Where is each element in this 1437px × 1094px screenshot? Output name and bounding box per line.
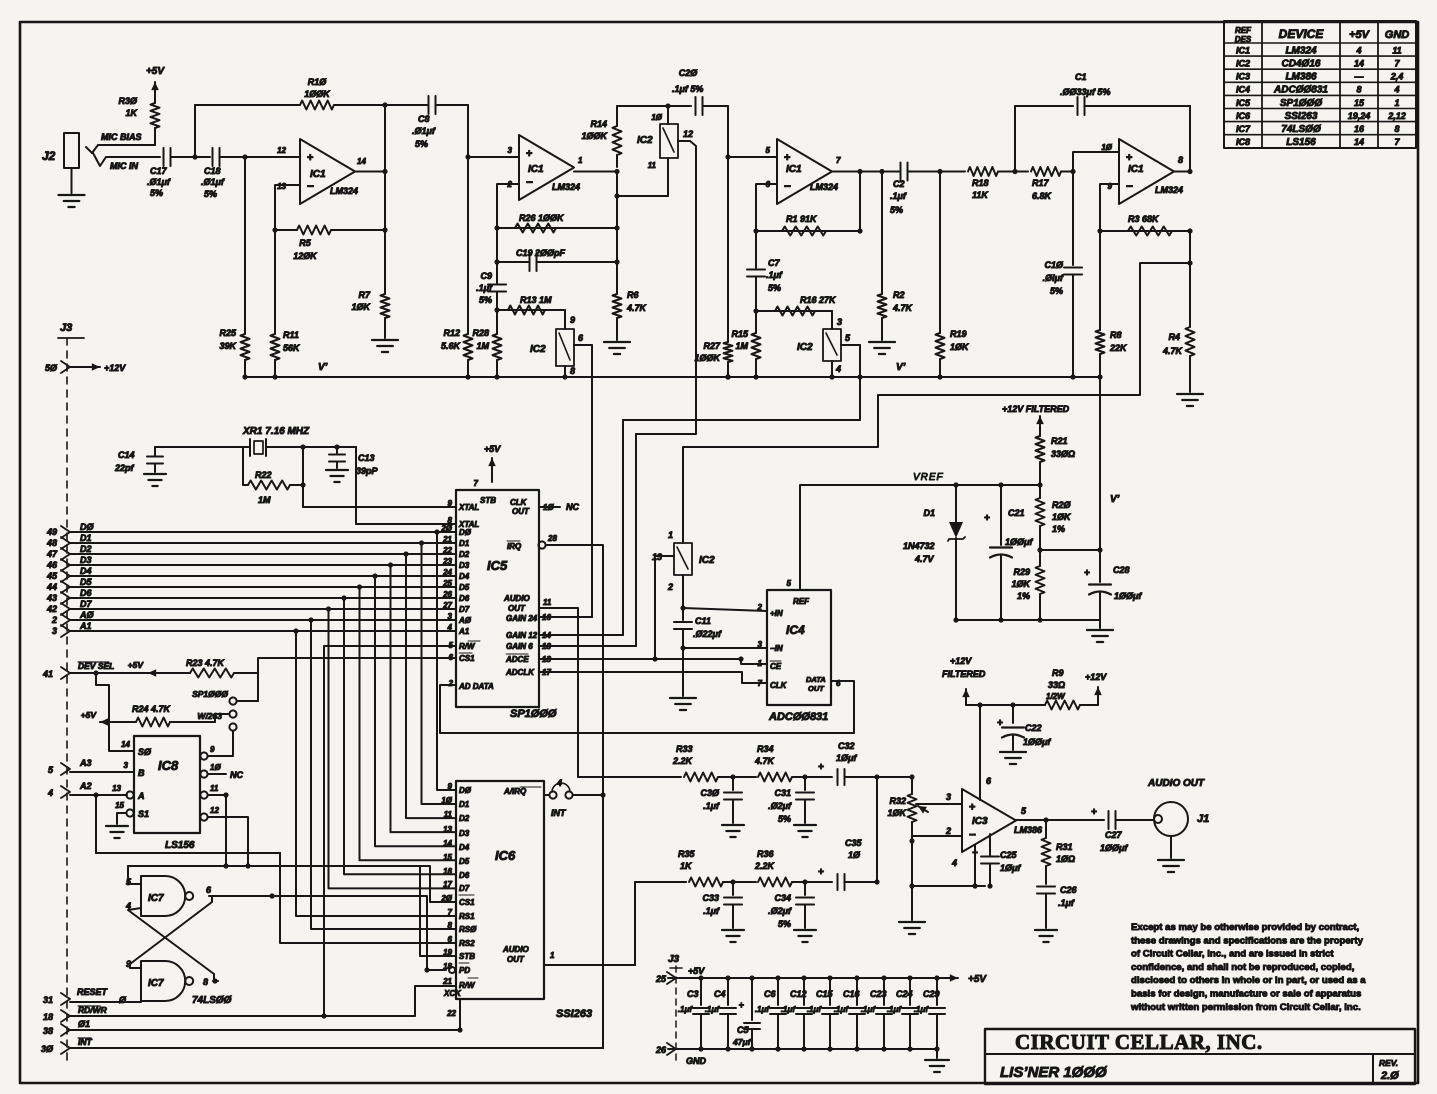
wire to op4 +in <box>1073 152 1119 172</box>
svg-text:R5: R5 <box>299 238 311 248</box>
svg-text:12: 12 <box>277 146 286 155</box>
wire MIC IN <box>93 153 160 171</box>
svg-text:XCK: XCK <box>443 989 462 998</box>
wire IC7b out <box>212 978 218 983</box>
bus wire D1 (pin 48) <box>46 533 456 549</box>
wire <box>879 169 884 174</box>
svg-text:.1μf: .1μf <box>703 801 720 811</box>
resistor R31 10ohm <box>1042 820 1076 875</box>
resistor R30 1K <box>118 96 159 145</box>
svg-text:C12: C12 <box>790 989 807 999</box>
svg-text:D7: D7 <box>459 605 470 614</box>
ground (R7) <box>372 330 398 352</box>
svg-text:1ØØμf: 1ØØμf <box>1023 737 1051 747</box>
ground (C33) <box>722 930 744 942</box>
svg-text:.1μf: .1μf <box>834 1005 849 1014</box>
svg-text:3: 3 <box>946 792 951 802</box>
svg-text:5: 5 <box>787 579 792 588</box>
svg-text:7: 7 <box>474 479 479 488</box>
svg-text:D6: D6 <box>459 594 470 603</box>
svg-text:.Ø1μf: .Ø1μf <box>201 177 225 187</box>
capacitor C29 .1uf <box>914 978 945 1049</box>
svg-text:C5: C5 <box>737 1025 749 1035</box>
svg-text:DØ: DØ <box>459 786 472 795</box>
svg-text:GAIN 24: GAIN 24 <box>506 614 538 623</box>
svg-text:R23 4.7K: R23 4.7K <box>186 658 226 668</box>
svg-text:11: 11 <box>444 810 453 819</box>
V-prime rail <box>242 362 1100 380</box>
wire DØ drop to IC6 <box>434 529 456 790</box>
wire to CS1 IC6 <box>128 866 456 902</box>
svg-text:23: 23 <box>442 557 452 566</box>
svg-text:11: 11 <box>543 598 552 607</box>
svg-text:16: 16 <box>443 867 452 876</box>
svg-text:9: 9 <box>448 782 453 791</box>
wire MIC BIAS <box>86 132 155 153</box>
resistor R9 33 1/2W <box>1045 668 1098 710</box>
wire op2 output <box>574 169 620 174</box>
capacitor C17 .01uf <box>147 148 171 198</box>
wire op4 output <box>1174 106 1193 174</box>
svg-text:56K: 56K <box>283 343 301 353</box>
svg-text:14: 14 <box>443 839 452 848</box>
svg-text:IC3: IC3 <box>972 816 988 827</box>
resistor R20 10K 1% <box>1036 482 1073 552</box>
analog switch IC2 (pins 3/5/4) <box>797 311 860 380</box>
svg-text:these drawings and specificati: these drawings and specifications are th… <box>1131 935 1364 946</box>
svg-text:REV.: REV. <box>1379 1058 1398 1068</box>
ground (C14) <box>144 474 166 486</box>
svg-text:D6: D6 <box>80 588 92 598</box>
svg-text:2,12: 2,12 <box>1387 111 1406 121</box>
svg-text:.Ø1μf: .Ø1μf <box>412 126 436 136</box>
svg-text:11: 11 <box>648 161 657 170</box>
wire D6 drop to IC6 <box>341 595 456 874</box>
svg-text:D3: D3 <box>459 829 470 838</box>
svg-text:C22: C22 <box>1025 723 1042 733</box>
wire IRQ to INT net <box>546 545 603 795</box>
wire A3 <box>48 758 134 775</box>
wire RW net <box>321 646 456 1019</box>
svg-text:ADCLK: ADCLK <box>505 668 535 677</box>
svg-text:R32: R32 <box>889 796 906 806</box>
svg-text:25: 25 <box>655 974 667 984</box>
svg-text:22pf: 22pf <box>114 463 135 473</box>
svg-text:C31: C31 <box>774 788 791 798</box>
svg-text:13: 13 <box>277 182 286 191</box>
capacitor C35 10 <box>805 838 880 890</box>
svg-text:12: 12 <box>210 806 219 815</box>
svg-text:42: 42 <box>46 604 57 614</box>
svg-text:D4: D4 <box>459 843 470 852</box>
wire crystal right <box>266 444 356 449</box>
svg-text:R1Ø: R1Ø <box>308 77 328 87</box>
IC U8 LS156 <box>115 736 243 851</box>
wire IC7a out <box>209 893 275 898</box>
svg-text:A/IRQ: A/IRQ <box>503 787 527 796</box>
op-amp U3 IC3 LM386 <box>945 776 1043 868</box>
svg-text:C23: C23 <box>870 989 887 999</box>
analog switch IC2 (pins 9/6/8) <box>530 310 592 380</box>
svg-text:basis for design, manufacture: basis for design, manufacture or sale of… <box>1131 989 1361 1000</box>
svg-text:2Ø: 2Ø <box>440 894 452 903</box>
svg-text:IC8: IC8 <box>1236 137 1250 147</box>
svg-text:R16 27K: R16 27K <box>800 295 837 305</box>
svg-text:C6: C6 <box>764 989 776 999</box>
svg-text:4: 4 <box>1355 45 1361 55</box>
svg-text:−IN: −IN <box>770 644 783 653</box>
wire GAIN12 net <box>622 420 624 635</box>
svg-text:IC1: IC1 <box>1236 45 1250 55</box>
resistor R28 1M <box>472 310 501 377</box>
svg-text:−: − <box>1126 179 1133 193</box>
ground (VREF) <box>1087 630 1113 642</box>
svg-text:8: 8 <box>203 977 208 987</box>
resistor R7 10K <box>351 289 389 330</box>
wire D5 drop to IC6 <box>357 584 456 860</box>
svg-text:+5V: +5V <box>146 66 165 77</box>
svg-text:AD DATA: AD DATA <box>458 682 494 691</box>
svg-text:5.6K: 5.6K <box>441 341 462 351</box>
svg-text:1M: 1M <box>476 341 489 351</box>
svg-text:15: 15 <box>443 853 452 862</box>
zener diode D1 1N4732 4.7V <box>903 482 965 622</box>
svg-text:R21: R21 <box>1051 436 1068 446</box>
capacitor C23 .1uf <box>861 978 892 1049</box>
svg-text:1Ø: 1Ø <box>441 796 452 805</box>
svg-text:+: + <box>1091 807 1097 818</box>
svg-text:IC7: IC7 <box>148 893 164 904</box>
GND rail <box>668 1046 940 1051</box>
resistor R19 10K <box>936 172 971 378</box>
svg-text:IC2: IC2 <box>530 344 546 355</box>
svg-text:B: B <box>138 768 145 778</box>
wire REF (VREF) <box>800 472 1040 590</box>
capacitor C34 .02uf 5% <box>768 882 814 929</box>
wire GAIN6 <box>539 645 636 647</box>
IC power pin reference table <box>1224 21 1416 148</box>
svg-text:Ø: Ø <box>119 995 127 1005</box>
jumper A/IRQ INT <box>544 778 606 818</box>
svg-text:R/W: R/W <box>459 642 476 651</box>
svg-text:21: 21 <box>442 977 452 986</box>
svg-text:8: 8 <box>1178 155 1183 165</box>
svg-text:5: 5 <box>766 146 771 155</box>
svg-text:AUDIO: AUDIO <box>503 594 531 603</box>
svg-text:IC2: IC2 <box>637 135 653 146</box>
svg-text:4.7K: 4.7K <box>892 303 914 313</box>
svg-text:LS156: LS156 <box>165 840 195 851</box>
svg-text:DEVICE: DEVICE <box>1279 27 1325 41</box>
capacitor C10 .01uf 5% <box>1043 172 1082 378</box>
svg-text:9: 9 <box>570 315 575 325</box>
svg-text:+: + <box>818 762 824 773</box>
svg-text:1Øμf: 1Øμf <box>1000 863 1021 873</box>
svg-text:AØ: AØ <box>79 610 94 620</box>
svg-text:12: 12 <box>683 129 693 139</box>
svg-text:.Ø22μf: .Ø22μf <box>693 629 722 639</box>
svg-text:LM324: LM324 <box>1285 45 1317 56</box>
capacitor C24 .1uf <box>887 978 918 1049</box>
svg-text:C26: C26 <box>1060 885 1078 895</box>
svg-text:R2: R2 <box>893 290 905 300</box>
capacitor C32 10uf <box>805 741 880 785</box>
ground (C13) <box>326 470 348 482</box>
svg-text:+5V: +5V <box>128 660 145 670</box>
pin 25 +5V <box>655 966 705 984</box>
svg-text:IC2: IC2 <box>797 342 813 353</box>
svg-text:.1μf 5%: .1μf 5% <box>672 84 703 94</box>
bus wire D5 (pin 44) <box>46 577 456 593</box>
resistor R8 22K <box>1096 231 1129 380</box>
svg-text:.1μf: .1μf <box>1058 898 1075 908</box>
svg-text:9: 9 <box>210 745 215 754</box>
ground (IC8 S1) <box>106 813 128 838</box>
title block <box>985 1029 1415 1084</box>
svg-text:5: 5 <box>48 765 54 775</box>
op-amp U1d IC1 LM324 <box>1101 139 1183 204</box>
svg-text:2Ø: 2Ø <box>440 524 452 533</box>
svg-text:11: 11 <box>1392 45 1401 55</box>
capacitor C20 .1uf 5% <box>617 68 728 115</box>
svg-text:9: 9 <box>448 499 453 508</box>
svg-text:2: 2 <box>757 603 763 612</box>
svg-text:47μf: 47μf <box>732 1037 752 1047</box>
svg-text:D5: D5 <box>459 583 470 592</box>
resistor R26 100K <box>494 213 619 233</box>
capacitor C12 .1uf <box>781 978 812 1049</box>
svg-text:4.7K: 4.7K <box>626 303 648 313</box>
svg-text:33Ω: 33Ω <box>1048 680 1065 690</box>
resistor R27 100K <box>694 157 732 380</box>
svg-text:14: 14 <box>121 740 130 749</box>
svg-text:1ØØμf: 1ØØμf <box>1100 843 1128 853</box>
pin 50 +12V <box>45 361 126 373</box>
wire to ADC -IN <box>683 647 767 649</box>
svg-text:R17: R17 <box>1032 178 1050 188</box>
wire AD DATA return <box>440 681 854 733</box>
svg-text:—: — <box>1354 72 1365 82</box>
bus wire D4 (pin 45) <box>46 566 456 582</box>
wire op1 +in <box>299 156 301 158</box>
svg-text:R3Ø: R3Ø <box>118 96 138 106</box>
svg-text:1%: 1% <box>1052 524 1065 534</box>
svg-text:W/263: W/263 <box>197 711 222 721</box>
capacitor C18 .01uf <box>201 148 225 199</box>
+12V FILTERED node <box>942 656 1045 708</box>
svg-text:7: 7 <box>836 156 841 165</box>
svg-text:5Ø: 5Ø <box>45 363 58 373</box>
svg-text:.Ø2μf: .Ø2μf <box>768 906 792 916</box>
capacitor C6 .1uf <box>755 978 786 1049</box>
svg-text:5%: 5% <box>768 283 781 293</box>
svg-text:4: 4 <box>951 858 957 868</box>
svg-text:A1: A1 <box>458 627 470 636</box>
svg-text:C2: C2 <box>893 179 905 189</box>
svg-text:.1μf: .1μf <box>766 270 783 280</box>
svg-text:4.7K: 4.7K <box>1162 346 1184 356</box>
svg-text:C9: C9 <box>480 271 492 281</box>
ground (C26) <box>1035 930 1057 942</box>
svg-text:11: 11 <box>210 784 219 793</box>
svg-text:SP1ØØØ: SP1ØØØ <box>1280 98 1323 109</box>
bus wire D3 (pin 46) <box>46 555 456 571</box>
svg-text:4: 4 <box>1393 85 1399 95</box>
wire pin6 to +12V <box>979 705 981 800</box>
svg-text:A2: A2 <box>79 781 92 791</box>
svg-text:2.Ø: 2.Ø <box>1380 1070 1399 1082</box>
resistor R32 10K pot <box>887 777 928 844</box>
svg-text:47: 47 <box>46 549 58 559</box>
svg-text:−: − <box>307 179 314 193</box>
svg-text:NC: NC <box>566 502 579 512</box>
+5V rail <box>668 974 987 985</box>
svg-text:R9: R9 <box>1052 668 1064 678</box>
resistor R14 100K <box>581 119 621 167</box>
wire XTAL8 <box>356 447 456 524</box>
wire ADCE to sw4 ctl <box>655 556 674 659</box>
svg-text:7: 7 <box>1394 59 1400 69</box>
svg-text:4: 4 <box>447 623 453 632</box>
wire D2 drop to IC6 <box>403 551 456 818</box>
svg-text:14: 14 <box>357 157 366 166</box>
wire ADCE <box>539 656 741 661</box>
svg-text:LM324: LM324 <box>1155 185 1183 195</box>
wire filter join <box>877 774 915 882</box>
svg-text:LM324: LM324 <box>810 182 838 192</box>
ground (C34) <box>794 930 816 942</box>
svg-text:48: 48 <box>46 538 57 548</box>
jumper pads SP1000/W263 <box>192 673 258 731</box>
wire DEV SEL <box>42 661 190 679</box>
svg-text:A1: A1 <box>79 621 92 631</box>
svg-text:.Ø2μf: .Ø2μf <box>768 801 792 811</box>
bus wire D2 (pin 47) <box>46 544 456 560</box>
capacitor C1 .0033uf 5% <box>1012 72 1190 174</box>
svg-text:39pP: 39pP <box>356 466 379 476</box>
svg-text:6: 6 <box>836 679 841 688</box>
svg-text:R3 68K: R3 68K <box>1128 214 1160 224</box>
svg-text:1ØØμf: 1ØØμf <box>1114 591 1142 601</box>
svg-text:6.8K: 6.8K <box>1032 191 1053 201</box>
svg-text:STB: STB <box>459 952 475 961</box>
svg-text:+5V: +5V <box>968 974 987 985</box>
svg-text:R8: R8 <box>1110 330 1122 340</box>
svg-text:SØ: SØ <box>138 747 152 757</box>
resistor R3 68K <box>1097 214 1192 236</box>
svg-text:+: + <box>526 148 532 160</box>
svg-text:confidence, and shall not be r: confidence, and shall not be reproduced,… <box>1131 962 1355 973</box>
svg-text:GND: GND <box>686 1056 707 1066</box>
NAND gate IC7b <box>119 959 208 1005</box>
svg-text:J3: J3 <box>60 322 72 334</box>
svg-text:3: 3 <box>52 626 57 636</box>
svg-text:7: 7 <box>448 908 453 917</box>
svg-text:R12: R12 <box>443 328 460 338</box>
svg-text:1: 1 <box>1394 98 1399 108</box>
svg-text:5%: 5% <box>204 189 217 199</box>
svg-text:V’: V’ <box>896 362 906 373</box>
+12V arrow <box>1085 672 1107 705</box>
op-amp U1a IC1 LM324 <box>277 139 366 204</box>
svg-text:IC8: IC8 <box>158 758 179 773</box>
svg-text:ADCØØ831: ADCØØ831 <box>1273 85 1328 96</box>
svg-text:C11: C11 <box>695 616 711 626</box>
svg-text:C33: C33 <box>702 893 719 903</box>
wire D3 drop to IC6 <box>388 562 456 832</box>
svg-text:3: 3 <box>758 640 763 649</box>
resistor R11 56K <box>271 230 302 377</box>
svg-text:D2: D2 <box>80 544 92 554</box>
svg-text:D7: D7 <box>459 884 470 893</box>
svg-text:+: + <box>739 1000 744 1010</box>
svg-text:26: 26 <box>442 590 452 599</box>
wire op3 output <box>832 169 899 174</box>
svg-text:8: 8 <box>448 921 453 930</box>
capacitor C27 100uf <box>1091 807 1152 853</box>
svg-text:C18: C18 <box>204 166 221 176</box>
svg-text:.1μf: .1μf <box>807 1005 822 1014</box>
svg-text:V’: V’ <box>1110 494 1120 505</box>
wire IC8 pin11 <box>208 792 229 868</box>
svg-text:+: + <box>1084 568 1090 579</box>
resistor R2 4.7K <box>878 172 914 331</box>
svg-text:1: 1 <box>550 951 555 960</box>
svg-text:15: 15 <box>1354 98 1365 108</box>
svg-text:.1μf: .1μf <box>887 1005 902 1014</box>
svg-text:DATA: DATA <box>806 675 826 684</box>
svg-text:+5V: +5V <box>484 444 501 454</box>
wire R10 feedback <box>194 105 196 157</box>
pin 26 GND <box>655 1043 707 1066</box>
wire GAIN12 <box>539 634 623 636</box>
svg-text:33ØΩ: 33ØΩ <box>1051 449 1075 459</box>
analog switch IC2 (pins 10/12/11) <box>637 106 693 170</box>
svg-text:17: 17 <box>443 880 452 889</box>
svg-text:D1: D1 <box>459 800 470 809</box>
svg-text:7: 7 <box>758 679 763 688</box>
ground (bypass) <box>925 1049 949 1072</box>
svg-text:IC6: IC6 <box>495 848 516 863</box>
svg-text:1M: 1M <box>735 341 748 351</box>
wire op1 -in <box>275 185 300 230</box>
op-amp U1b IC1 LM324 <box>507 135 583 200</box>
svg-text:+5V: +5V <box>1349 29 1371 41</box>
wire <box>171 156 210 158</box>
svg-text:IC1: IC1 <box>786 164 802 175</box>
capacitor C22 100uf <box>997 705 1051 750</box>
svg-text:38: 38 <box>43 1026 53 1036</box>
svg-text:2: 2 <box>945 826 951 836</box>
svg-text:R18: R18 <box>972 178 989 188</box>
svg-text:39K: 39K <box>219 341 237 351</box>
wire D4 drop to IC6 <box>372 573 456 846</box>
svg-text:PD: PD <box>459 966 470 975</box>
resistor R29 10K 1% <box>1011 550 1044 623</box>
ground (C31) <box>794 825 816 837</box>
svg-text:OUT: OUT <box>808 684 825 693</box>
svg-text:C4: C4 <box>714 989 726 999</box>
svg-text:OUT: OUT <box>507 955 525 964</box>
svg-text:3: 3 <box>448 612 453 621</box>
svg-text:2,4: 2,4 <box>1390 72 1404 82</box>
svg-text:4.7V: 4.7V <box>914 554 935 564</box>
svg-text:74LSØØ: 74LSØØ <box>192 995 233 1006</box>
svg-text:C32: C32 <box>838 741 855 751</box>
capacitor C5 47uf <box>732 978 760 1049</box>
wire sw1 pin12 drop <box>636 141 696 434</box>
svg-text:R27: R27 <box>703 341 721 351</box>
